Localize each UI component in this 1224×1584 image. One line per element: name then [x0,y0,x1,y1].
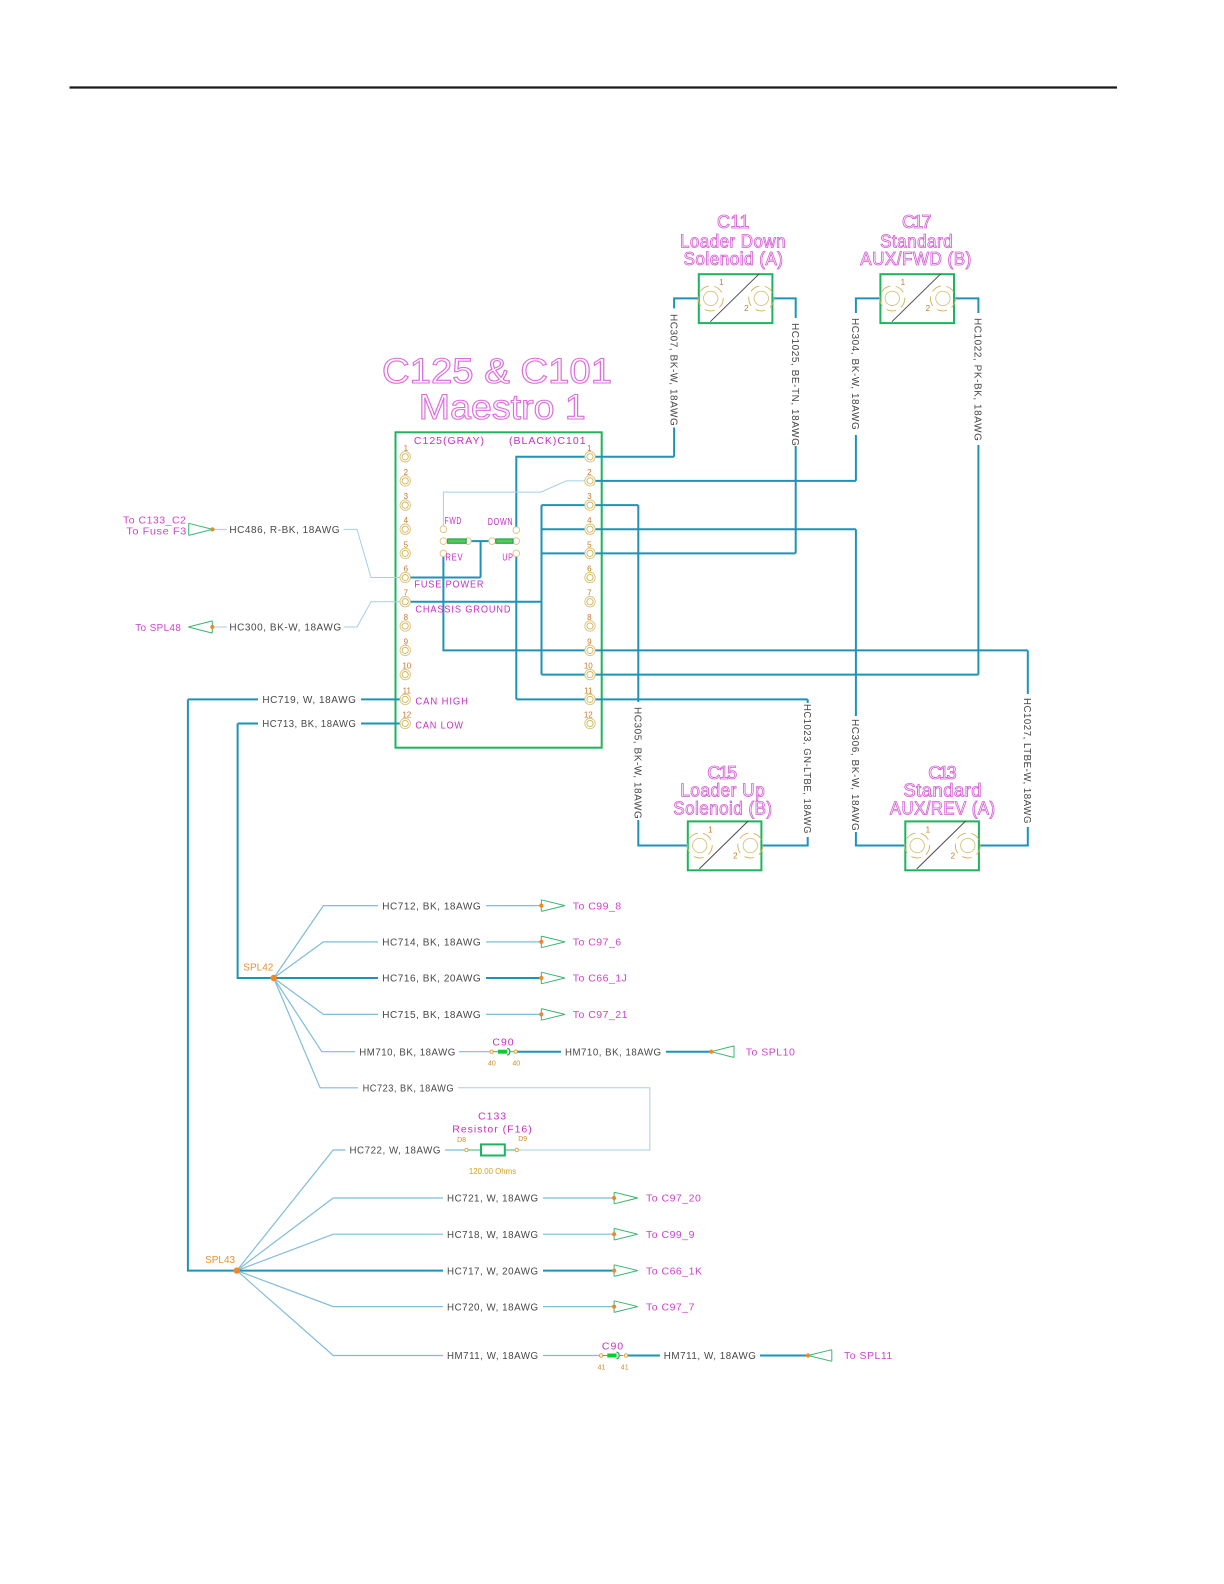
svg-text:2: 2 [744,304,749,313]
arrow to C66_1J [539,972,565,984]
label HC714 [382,938,481,949]
svg-text:1: 1 [926,826,931,835]
wire pin5 row to HC1025 [542,552,796,554]
label To C66_1K [646,1265,702,1277]
wire HC716 [274,977,542,979]
label REV [445,552,463,564]
svg-text:1: 1 [404,444,409,453]
title C125 & C101 Maestro 1 [382,352,612,427]
svg-text:HC1022, PK-BK, 18AWG: HC1022, PK-BK, 18AWG [972,318,983,441]
svg-text:HM710, BK, 18AWG: HM710, BK, 18AWG [359,1047,456,1058]
svg-text:2: 2 [404,468,409,477]
svg-text:5: 5 [404,540,409,549]
label HC716 [382,974,481,985]
svg-text:To SPL11: To SPL11 [844,1350,893,1362]
arrow to C66_1K [612,1265,638,1277]
wire HC719 left segs [188,698,405,700]
svg-text:HC1023, GN-LTBE, 18AWG: HC1023, GN-LTBE, 18AWG [801,704,812,834]
pin numbers C125 left [402,444,411,720]
svg-text:To C99_9: To C99_9 [646,1229,695,1241]
svg-text:2: 2 [587,468,592,477]
svg-text:REV: REV [445,552,463,564]
svg-text:HM710, BK, 18AWG: HM710, BK, 18AWG [565,1047,662,1058]
label To C97_20 [646,1193,701,1205]
label HC713 [262,719,356,730]
wire HC1023 pin11 to C15 right [761,699,812,845]
wire HC720 [237,1271,614,1307]
svg-text:HC723, BK, 18AWG: HC723, BK, 18AWG [363,1084,455,1095]
wire chassis bus vertical [541,505,543,674]
svg-text:To SPL48: To SPL48 [135,622,181,634]
wire HC723 to C133 right [274,978,650,1150]
wire HC1027 pin9 to C13 right [979,650,1032,845]
svg-text:C125(GRAY): C125(GRAY) [414,435,485,447]
wire HC1025 C11 right to pin5 [772,298,800,553]
svg-text:HC722, W, 18AWG: HC722, W, 18AWG [350,1146,442,1157]
label CAN LOW [415,720,464,732]
svg-text:To C97_7: To C97_7 [646,1301,695,1313]
label To C133_C2 / To Fuse F3 [123,515,187,538]
wire HC722 to C133 left [237,1150,465,1271]
label To C99_8 [573,900,622,912]
label To C97_6 [573,937,622,949]
svg-text:1: 1 [901,278,906,287]
svg-text:40: 40 [488,1061,496,1068]
label HC300 [229,623,341,634]
svg-text:FUSE POWER: FUSE POWER [414,579,484,591]
switch FWD/REV contact circles [440,526,471,557]
svg-text:Resistor (F16): Resistor (F16) [452,1124,533,1136]
switch DOWN/UP contact circles [489,527,520,557]
connector C15 Loader Up Solenoid (B) [673,763,772,870]
arrow to SPL11 [806,1350,832,1362]
svg-text:C90: C90 [602,1341,624,1353]
arrow from C133_C2/Fuse F3 [189,523,215,535]
svg-text:HC712, BK, 18AWG: HC712, BK, 18AWG [382,901,481,912]
svg-text:6: 6 [587,565,592,574]
wire HC712 [274,906,542,978]
connector C17 Standard AUX/FWD (B) [860,212,972,323]
svg-text:D9: D9 [518,1136,527,1143]
wire HC713 down to SPL42 [238,724,274,979]
arrow to SPL10 [709,1046,734,1058]
svg-text:41: 41 [621,1365,629,1372]
wire right-pin2 to HC304 [590,480,856,482]
label To SPL11 [844,1350,893,1362]
svg-text:6: 6 [404,565,409,574]
label HC719 [262,695,356,706]
wire HC719 down to SPL43 [188,699,237,1270]
svg-text:C125 & C101: C125 & C101 [382,352,612,391]
arrow to C97_7 [612,1301,638,1313]
svg-text:DOWN: DOWN [488,516,514,528]
wire HC721 [237,1198,614,1271]
svg-text:2: 2 [733,851,738,860]
connector C125/C101 main box [396,432,602,747]
label HC723 [363,1084,455,1095]
svg-text:HM711, W, 18AWG: HM711, W, 18AWG [447,1351,539,1362]
wire pin10 row from HC1022 [542,674,979,676]
svg-text:2: 2 [951,851,956,860]
svg-text:HC715, BK, 18AWG: HC715, BK, 18AWG [382,1010,481,1021]
svg-text:Loader Up: Loader Up [680,781,765,801]
svg-text:To C97_21: To C97_21 [573,1009,628,1021]
svg-text:HC1025, BE-TN, 18AWG: HC1025, BE-TN, 18AWG [789,323,800,446]
arrow to SPL48 [188,621,214,633]
svg-text:10: 10 [584,662,593,671]
label HM711 left [447,1351,539,1362]
wire HC717 [237,1270,614,1272]
svg-text:40: 40 [512,1061,520,1068]
label To C66_1J [573,973,628,985]
svg-text:7: 7 [404,589,409,598]
svg-text:9: 9 [587,637,592,646]
label DOWN [488,516,514,528]
arrow to C97_6 [539,936,565,948]
svg-text:8: 8 [587,613,592,622]
svg-text:To C99_8: To C99_8 [573,900,622,912]
svg-text:HC719, W, 18AWG: HC719, W, 18AWG [262,695,356,706]
wire HM711 right to SPL11 [628,1355,808,1357]
svg-text:2: 2 [926,304,931,313]
svg-text:HC721, W, 18AWG: HC721, W, 18AWG [447,1194,539,1205]
wire HC300 to pin7 (light) [215,602,402,627]
wire HC306 pin4 to C13 left [849,529,905,845]
svg-text:1: 1 [708,826,713,835]
label HC712 [382,901,481,912]
svg-text:HC304, BK-W, 18AWG: HC304, BK-W, 18AWG [849,318,860,430]
wire switch middle link [471,540,489,542]
svg-text:HC1027, LTBE-W, 18AWG: HC1027, LTBE-W, 18AWG [1021,698,1032,824]
svg-text:C17: C17 [902,212,932,232]
wire HM710 left [274,978,490,1052]
wire UP to right-pin11 [515,557,517,700]
svg-text:To C97_20: To C97_20 [646,1193,701,1205]
wire HC304 C17 left to pin2 [849,298,880,481]
svg-text:HC300, BK-W, 18AWG: HC300, BK-W, 18AWG [229,623,341,634]
svg-text:Maestro 1: Maestro 1 [419,388,586,427]
splice SPL43 [205,1255,240,1274]
svg-text:FWD: FWD [445,515,463,527]
label HC722 [350,1146,442,1157]
label HC715 [382,1010,481,1021]
svg-text:4: 4 [587,516,592,525]
wire pin3 row [542,504,639,506]
svg-text:5: 5 [587,540,592,549]
inline connector C90 (HM711) [598,1341,629,1372]
connector C13 Standard AUX/REV (A) [890,763,996,870]
svg-text:HC486, R-BK, 18AWG: HC486, R-BK, 18AWG [229,525,340,536]
svg-text:C11: C11 [717,212,750,232]
svg-text:Solenoid (B): Solenoid (B) [673,799,772,819]
svg-text:9: 9 [404,637,409,646]
label HC486 [229,525,340,536]
svg-text:Solenoid (A): Solenoid (A) [684,249,784,269]
svg-text:(BLACK)C101: (BLACK)C101 [509,435,587,447]
arrow to C99_8 [539,900,565,912]
wire right-pin11 to HC1023 corner [516,698,807,700]
pins C101 right column 1-12 [585,452,595,729]
label C125(GRAY) [414,435,485,447]
label HC718 [447,1230,539,1241]
svg-text:Standard: Standard [903,781,982,801]
svg-text:41: 41 [598,1365,606,1372]
wire HC713 left segs [238,723,406,725]
svg-text:HC305, BK-W, 18AWG: HC305, BK-W, 18AWG [632,707,643,819]
svg-text:8: 8 [404,613,409,622]
label To C97_7 [646,1301,695,1313]
label HM711 right [664,1351,757,1362]
svg-text:10: 10 [402,662,411,671]
svg-text:HC717, W, 20AWG: HC717, W, 20AWG [447,1266,539,1277]
svg-text:SPL42: SPL42 [243,963,273,974]
svg-text:7: 7 [587,589,592,598]
label CAN HIGH [415,696,469,708]
label FUSE POWER [414,579,484,591]
svg-text:AUX/FWD (B): AUX/FWD (B) [860,249,972,269]
wire HC714 [274,942,542,978]
svg-text:12: 12 [584,711,593,720]
pin numbers C101 right [584,444,593,720]
svg-text:4: 4 [404,516,409,525]
svg-text:HC307, BK-W, 18AWG: HC307, BK-W, 18AWG [667,314,678,426]
svg-text:1: 1 [587,444,592,453]
svg-text:HC714, BK, 18AWG: HC714, BK, 18AWG [382,938,481,949]
label HC717 [447,1266,539,1277]
arrow to C97_21 [539,1009,565,1021]
svg-text:AUX/REV (A): AUX/REV (A) [890,799,996,819]
label HC720 [447,1302,539,1313]
svg-text:11: 11 [403,686,412,695]
switch DOWN/UP bar [496,539,513,543]
svg-text:3: 3 [404,492,409,501]
arrow to C99_9 [612,1228,638,1240]
switch FWD/REV bar [448,539,467,543]
svg-text:HC720, W, 18AWG: HC720, W, 18AWG [447,1302,539,1313]
svg-text:HC713, BK, 18AWG: HC713, BK, 18AWG [262,719,356,730]
pins C125 left column 1-12 [400,452,410,729]
label HC721 [447,1194,539,1205]
wire right-pin1 to DOWN [516,457,674,527]
label To SPL48 [135,622,181,634]
wire pin4 row to HC306 [542,528,856,530]
wire HC1022 C17 right to pin10 [954,298,983,674]
svg-text:12: 12 [402,711,411,720]
svg-text:D8: D8 [457,1137,466,1144]
svg-text:To C66_1J: To C66_1J [573,973,628,985]
svg-text:1: 1 [719,278,724,287]
label UP [502,552,514,564]
svg-text:CAN HIGH: CAN HIGH [415,696,469,708]
svg-text:SPL43: SPL43 [205,1255,235,1266]
svg-text:CAN LOW: CAN LOW [415,720,464,732]
svg-text:HC718, W, 18AWG: HC718, W, 18AWG [447,1230,539,1241]
header rule [70,86,1118,88]
wire FWD to right-pin2 (light) [443,481,586,526]
svg-text:To SPL10: To SPL10 [746,1046,796,1058]
svg-text:UP: UP [502,552,514,564]
inline connector C90 (HM710) [488,1037,520,1068]
svg-text:C90: C90 [492,1037,514,1049]
label To SPL10 [746,1046,796,1058]
svg-text:C133: C133 [478,1111,507,1123]
svg-text:120.00 Ohms: 120.00 Ohms [469,1166,516,1176]
wire HC305 pin3 to C15 left [632,505,688,845]
resistor C133 (F16) [452,1111,533,1176]
wire HM711 left [237,1271,600,1356]
wire fuse power pin6 [409,541,481,577]
svg-text:To C97_6: To C97_6 [573,937,622,949]
svg-text:To C66_1K: To C66_1K [646,1265,702,1277]
wire HC307 C11 left [667,298,698,456]
wire REV to right-pin9 to HC1027 [443,557,1027,651]
svg-text:11: 11 [584,686,593,695]
svg-text:To Fuse F3: To Fuse F3 [126,526,187,538]
svg-text:HC716, BK, 20AWG: HC716, BK, 20AWG [382,974,481,985]
svg-text:3: 3 [587,492,592,501]
wire HC715 [274,978,542,1014]
label To C99_9 [646,1229,695,1241]
label CHASSIS GROUND [415,604,511,616]
label (BLACK)C101 [509,435,587,447]
wire HC718 [237,1234,614,1270]
wire HC486 to pin6 (light) [215,529,402,577]
wire HM710 right to SPL10 [518,1051,712,1053]
svg-text:HM711, W, 18AWG: HM711, W, 18AWG [664,1351,757,1362]
splice SPL42 [243,963,277,982]
svg-text:CHASSIS GROUND: CHASSIS GROUND [415,604,511,616]
arrow to C97_20 [612,1192,638,1204]
connector C11 Loader Down Solenoid (A) [680,212,786,323]
wire chassis ground pin7 [409,601,542,603]
label HM710 right [565,1047,662,1058]
svg-text:HC306, BK-W, 18AWG: HC306, BK-W, 18AWG [849,719,860,831]
label FWD [445,515,463,527]
label To C97_21 [573,1009,628,1021]
label HM710 left [359,1047,456,1058]
